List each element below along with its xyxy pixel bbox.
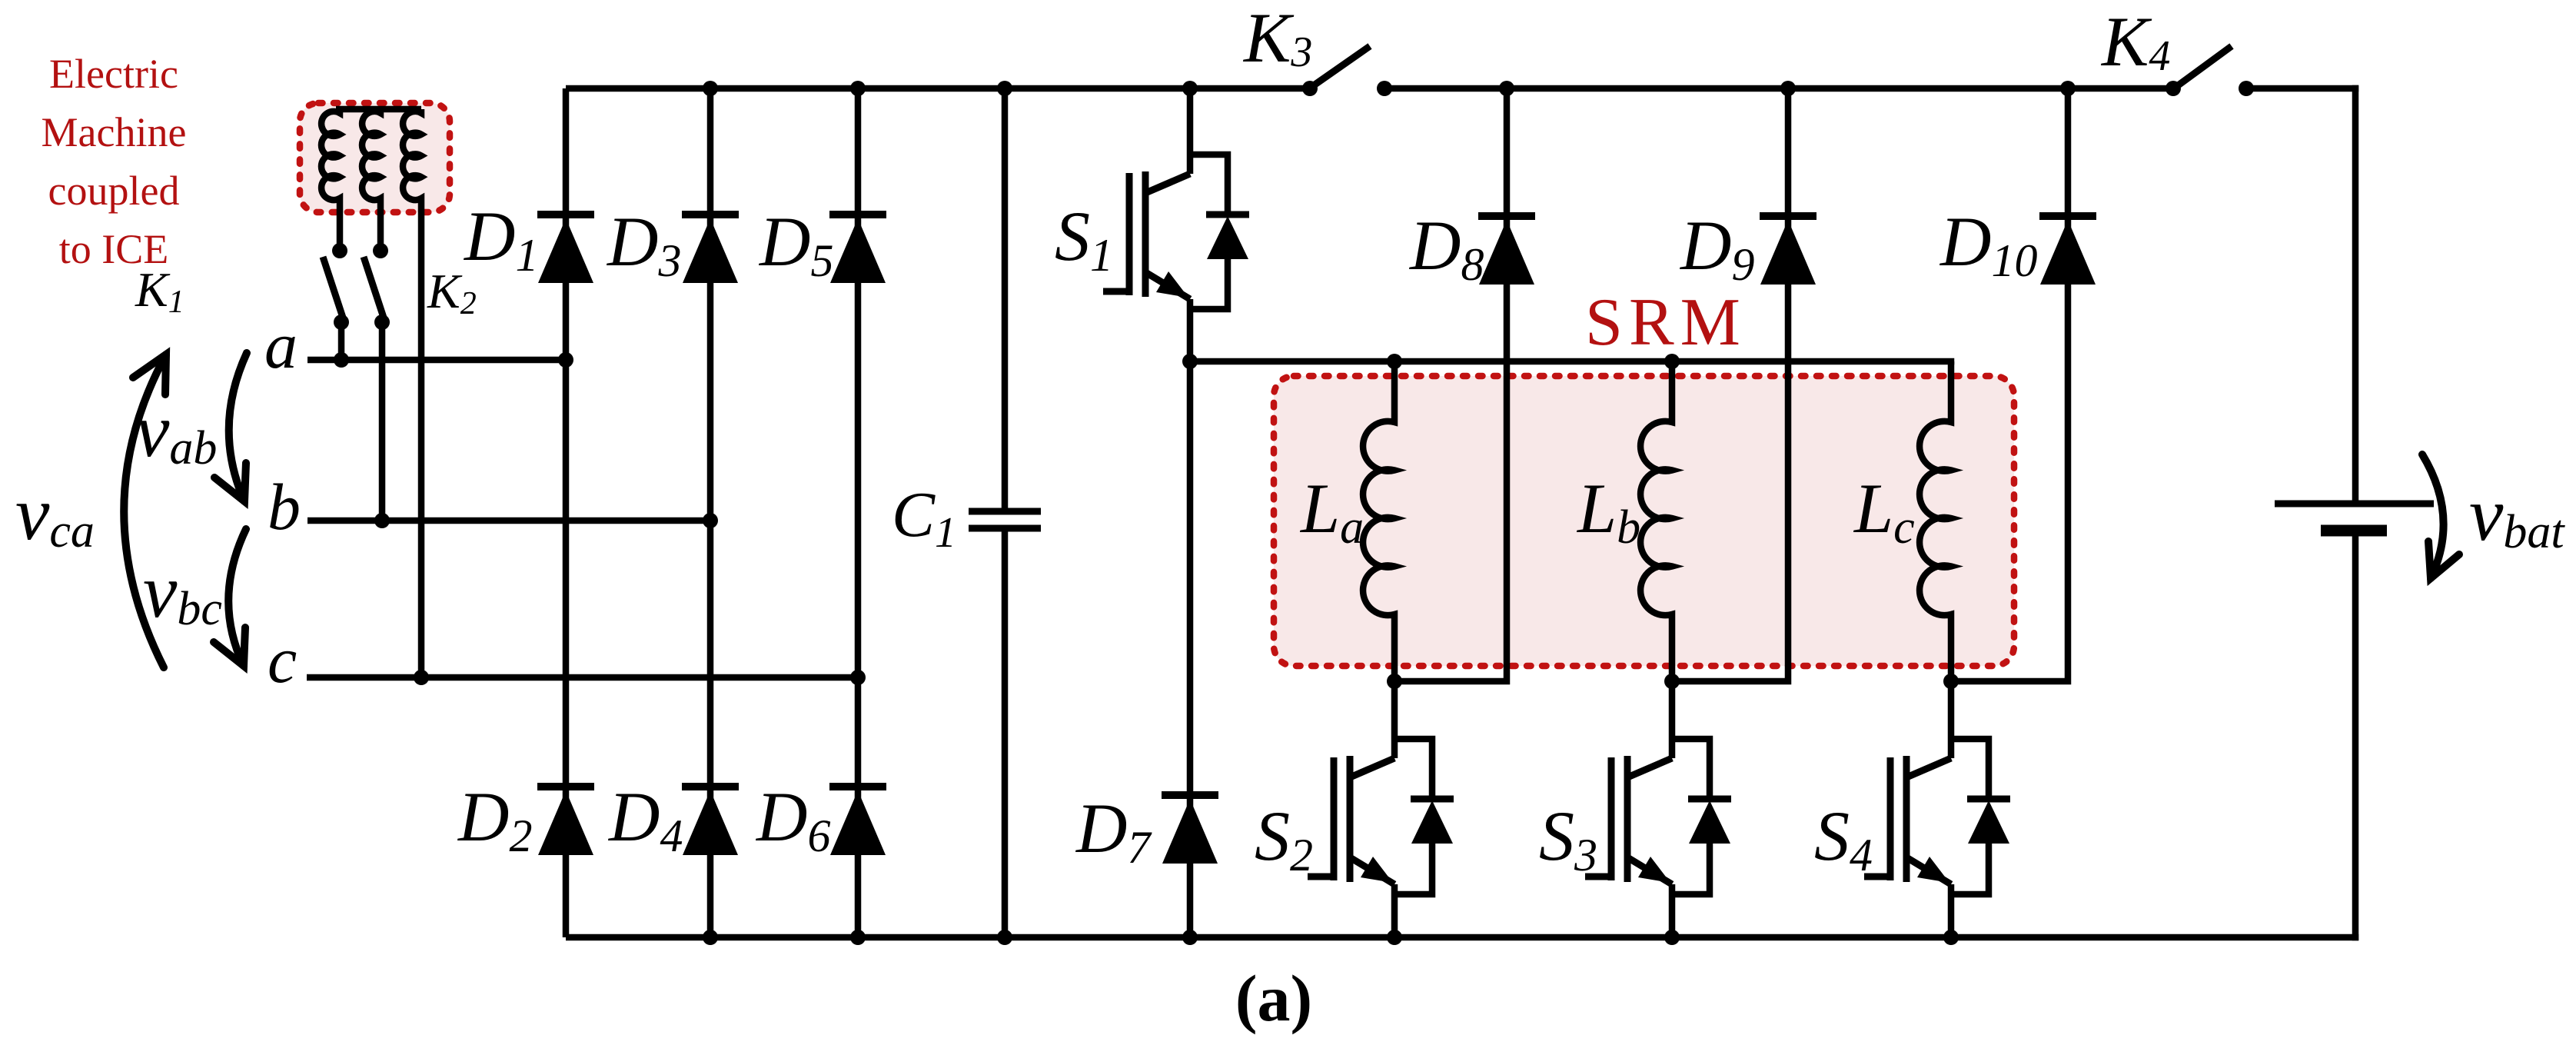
arrow v_ca [124,354,166,667]
diode D7 [1162,791,1218,799]
junction bottom bus C1 [997,930,1012,945]
junction bottom bus S4 [1943,930,1959,945]
wire S4 emitter lead [1948,884,1955,937]
wire node c [307,674,858,681]
diode D6 [829,783,886,790]
machine phase winding 1 [321,109,340,251]
svg-text:(a): (a) [1235,961,1312,1035]
switch K3 right contact [1377,81,1392,96]
wire bottom bus [566,934,2358,941]
diode D9 [1760,212,1816,220]
wire node a [307,357,566,364]
wire S1 collector lead [1187,88,1194,155]
arrow v_ab [229,353,247,501]
wire top bus right [2246,85,2358,92]
switch K4 left contact [2166,81,2181,96]
junction a on D1 leg [558,352,573,368]
junction c on D5 leg [850,670,866,685]
junction b on D3 leg [703,513,718,528]
inductor La [1363,361,1394,681]
wire phase header [1190,358,1954,365]
svg-text:c: c [268,623,297,697]
junction phase header S1/D7 [1182,354,1198,369]
junction top bus D5 [850,81,866,96]
wire S3 collector lead [1669,681,1676,739]
capacitor C1 [969,508,1041,515]
wire S2 emitter lead [1391,884,1398,937]
svg-text:b: b [268,470,301,544]
junction top bus D8 [1499,81,1514,96]
battery v_bat plates [2275,501,2434,508]
diode D2 [537,783,594,790]
junction bottom bus D6 [850,930,866,945]
wire C1 top lead [1002,88,1009,511]
junction c on winding-3 wire [414,670,429,685]
switch K3 left contact [1302,81,1318,96]
IGBT S1 [1187,155,1194,174]
wire rectifier leg D1-D2 [563,88,570,937]
junction bottom bus D4 [703,930,718,945]
SRM dashed box [1274,376,2014,666]
junction S2 phase node [1387,674,1402,689]
wire S3 emitter lead [1669,884,1676,937]
wire battery top lead [2352,85,2359,504]
switch K1 blade [323,257,344,320]
machine phase winding 2 [362,109,381,251]
diode D10 [2039,212,2096,220]
junction S3 phase node [1664,674,1680,689]
wire S1 emitter lead [1187,299,1194,361]
diode D3 [682,211,739,218]
wire D7 leg [1187,361,1194,937]
junction top bus C1 [997,81,1012,96]
switch K4 right contact [2239,81,2254,96]
switch K1 bottom contact [334,315,349,330]
junction phase header La [1387,354,1402,369]
IGBT S4 [1948,739,1955,758]
diode D5 [829,211,886,218]
junction S4 phase node [1943,674,1959,689]
machine phase winding 3 [403,109,421,677]
diode D1 [537,211,594,218]
junction b on K2 wire [374,513,390,528]
junction phase header Lb [1664,354,1680,369]
switch K4 blade [2177,46,2232,86]
switch K1 top contact [332,243,347,258]
wire top bus left [566,85,1310,92]
wire S2 collector lead [1391,681,1398,739]
wire C1 bottom lead [1002,528,1009,937]
arrow v_bc [228,529,246,666]
IGBT S3 [1669,739,1676,758]
wire rectifier leg D5-D6 [855,88,862,937]
inductor Lc [1920,361,1951,681]
junction a on K1 wire [334,352,349,368]
wire S4 collector lead [1948,681,1955,739]
junction bottom bus D7 [1182,930,1198,945]
switch K3 blade [1314,46,1370,85]
junction top bus D10 [2060,81,2076,96]
wire battery bottom lead [2352,531,2359,940]
switch K2 top contact [373,243,388,258]
wire D8 leg [1394,88,1507,681]
wire D9 leg [1672,88,1788,681]
svg-text:SRM: SRM [1585,285,1747,360]
arrow v_bat [2422,454,2444,578]
wire K1 to node a [338,322,345,360]
wire rectifier leg D3-D4 [707,88,714,937]
diode D8 [1478,212,1535,220]
wire D10 leg [1951,88,2068,681]
wire top bus middle [1384,85,2173,92]
wire K2 to node b [379,322,386,521]
junction bottom bus S2 [1387,930,1402,945]
switch K2 blade [364,257,384,320]
wire node b [307,518,710,524]
IGBT S2 [1391,739,1398,758]
diode D4 [682,783,739,790]
junction bottom bus S3 [1664,930,1680,945]
svg-text:a: a [264,308,297,382]
junction top bus D9 [1780,81,1796,96]
electric machine dashed box [300,103,450,212]
inductor Lb [1640,361,1672,681]
switch K2 bottom contact [374,315,390,330]
junction top bus D3 [703,81,718,96]
machine neutral bar wire [336,106,421,113]
junction top bus S1 [1182,81,1198,96]
